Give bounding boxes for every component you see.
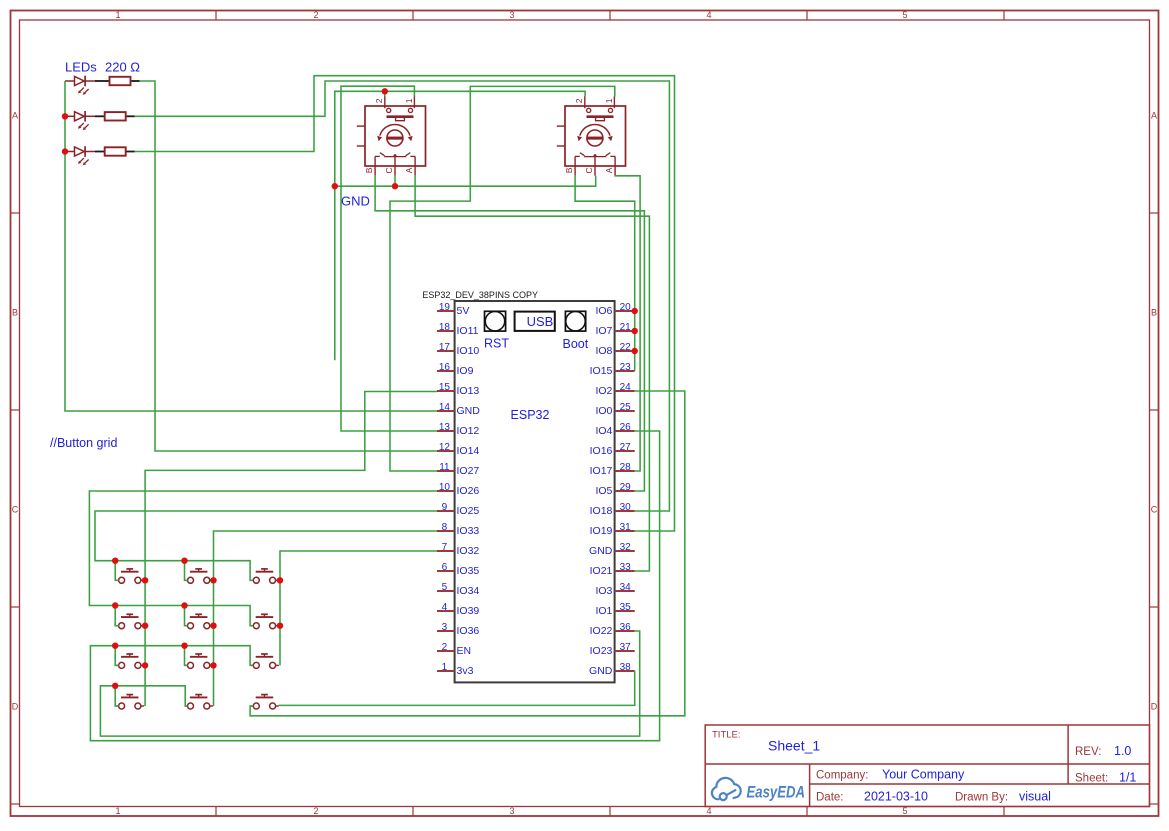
junction rowB S4 — [112, 602, 118, 608]
resistor R3 220R — [95, 151, 135, 153]
pin 7 IO32 — [437, 550, 455, 552]
wire net button col3 to pin7 IO32 — [280, 551, 437, 665]
junction encoder1 pin2 on GND net — [382, 88, 388, 94]
svg-text:IO11: IO11 — [457, 325, 479, 337]
pin 2 EN — [437, 650, 455, 652]
svg-text:IO1: IO1 — [595, 605, 612, 617]
svg-text:3v3: 3v3 — [457, 665, 474, 677]
pin 32 GND — [615, 550, 635, 552]
junction col2 S2 — [210, 577, 216, 583]
svg-text:ESP32_DEV_38PINS COPY: ESP32_DEV_38PINS COPY — [422, 290, 538, 300]
junction pin20 — [632, 308, 638, 314]
svg-text:18: 18 — [439, 322, 451, 333]
wire net button rowB to pin10 IO26 — [89, 491, 437, 626]
svg-text:GND: GND — [589, 665, 613, 677]
svg-text:IO15: IO15 — [590, 365, 613, 377]
svg-text:4: 4 — [442, 602, 448, 613]
Boot button — [565, 311, 585, 331]
USB connector — [515, 312, 555, 331]
svg-text:15: 15 — [439, 382, 451, 393]
svg-text:IO27: IO27 — [457, 465, 480, 477]
svg-text:31: 31 — [620, 522, 632, 533]
svg-text:23: 23 — [620, 362, 632, 373]
svg-text:IO25: IO25 — [457, 505, 480, 517]
svg-text:220 Ω: 220 Ω — [105, 60, 140, 75]
pin 12 IO14 — [437, 450, 455, 452]
svg-text:RST: RST — [484, 337, 509, 351]
pushbutton S2 — [185, 569, 214, 583]
wire rowC button lead S7 — [115, 646, 118, 666]
pushbutton S8 — [185, 654, 214, 668]
svg-text:38: 38 — [620, 662, 632, 673]
junction col2 S8 — [210, 662, 216, 668]
pin 30 IO18 — [615, 510, 635, 512]
svg-text:37: 37 — [620, 642, 632, 653]
junction col1 S1 — [142, 577, 148, 583]
svg-text:4: 4 — [706, 806, 711, 816]
wire net button col2 to pin8 IO33 — [214, 531, 438, 706]
wire rowB button lead S5 — [185, 606, 188, 626]
pin 21 IO7 — [615, 330, 635, 332]
svg-text:2: 2 — [313, 10, 318, 20]
svg-text:IO36: IO36 — [457, 625, 480, 637]
svg-text:A: A — [1151, 111, 1157, 121]
junction GND rail left — [332, 183, 338, 189]
svg-text:IO17: IO17 — [590, 465, 613, 477]
svg-text:29: 29 — [620, 482, 632, 493]
pushbutton S11 — [185, 695, 214, 709]
RST button — [485, 311, 506, 331]
wire net LED1/R1 to pin12 IO14 — [140, 81, 438, 451]
junction GND rail enc1-C — [392, 183, 398, 189]
title block — [705, 725, 1149, 807]
svg-text:32: 32 — [620, 542, 632, 553]
junction col2 S5 — [210, 623, 216, 629]
pushbutton S10 — [116, 695, 145, 709]
svg-text:IO13: IO13 — [457, 385, 480, 397]
svg-text:33: 33 — [620, 562, 632, 573]
wire net LED3/R3 to pin31 IO19 — [135, 76, 675, 531]
svg-text:35: 35 — [620, 602, 632, 613]
svg-text:Sheet_1: Sheet_1 — [768, 738, 820, 754]
svg-text:LEDs: LEDs — [65, 60, 97, 75]
svg-text:4: 4 — [706, 10, 711, 20]
svg-text:IO4: IO4 — [595, 425, 612, 437]
wire rowB button lead S4 — [115, 606, 118, 626]
junction rowC S7 — [112, 643, 118, 649]
svg-text:IO33: IO33 — [457, 525, 480, 537]
svg-text:EN: EN — [457, 645, 472, 657]
svg-text:27: 27 — [620, 442, 632, 453]
svg-text:17: 17 — [439, 342, 451, 353]
resistor R2 220R — [95, 115, 135, 117]
junction LED2 anode — [62, 113, 68, 119]
wire net button rowC to pin26 IO4 — [90, 431, 659, 741]
svg-text:1/1: 1/1 — [1119, 771, 1136, 785]
svg-text:IO32: IO32 — [457, 545, 480, 557]
rotary encoder 2 — [557, 96, 626, 175]
wire rowA button lead S2 — [185, 561, 188, 581]
pin 29 IO5 — [615, 490, 635, 492]
svg-text:GND: GND — [589, 545, 613, 557]
wire rowA button lead S1 — [115, 561, 118, 581]
svg-text:TITLE:: TITLE: — [712, 730, 741, 741]
junction pin22 — [632, 348, 638, 354]
svg-text:visual: visual — [1019, 790, 1051, 804]
pin 5 IO34 — [437, 590, 455, 592]
pin 1 3v3 — [437, 670, 455, 672]
svg-text:5: 5 — [442, 582, 448, 593]
pin 10 IO26 — [437, 490, 455, 492]
svg-text:1: 1 — [115, 806, 120, 816]
pin 28 IO17 — [615, 470, 635, 472]
svg-text:3: 3 — [509, 10, 514, 20]
svg-text:5: 5 — [902, 806, 907, 816]
svg-text:16: 16 — [439, 362, 451, 373]
pin 6 IO35 — [437, 570, 455, 572]
pushbutton S12 — [250, 695, 279, 709]
wire net LED-common to ESP32 pin14 GND — [65, 81, 437, 411]
svg-text:IO12: IO12 — [457, 425, 480, 437]
wire net encoder1 pinA to pin33 IO21 — [415, 176, 649, 571]
svg-text:Drawn By:: Drawn By: — [955, 792, 1008, 804]
pin 8 IO33 — [437, 530, 455, 532]
wire net LED2/R2 to pin30 IO18 — [135, 81, 670, 511]
pin 37 IO23 — [615, 650, 635, 652]
svg-text:IO39: IO39 — [457, 605, 480, 617]
pin 38 GND — [615, 670, 635, 672]
pin 31 IO19 — [615, 530, 635, 532]
LED LED1 — [65, 76, 95, 95]
pushbutton S5 — [185, 614, 214, 628]
svg-text:28: 28 — [620, 462, 632, 473]
svg-text:IO3: IO3 — [595, 585, 612, 597]
svg-text:5: 5 — [902, 10, 907, 20]
svg-text:Your Company: Your Company — [882, 768, 965, 782]
wire net button col1 to pin15 IO13 — [145, 392, 437, 707]
svg-text:IO0: IO0 — [595, 405, 612, 417]
pin 14 GND — [437, 410, 455, 412]
svg-text:3: 3 — [442, 622, 448, 633]
pin 23 IO15 — [615, 370, 635, 372]
svg-text:3: 3 — [509, 806, 514, 816]
svg-text:IO23: IO23 — [590, 645, 613, 657]
pin 26 IO4 — [615, 430, 635, 432]
svg-text:IO10: IO10 — [457, 345, 480, 357]
svg-text:IO26: IO26 — [457, 485, 480, 497]
wire net S12 right to pin38 GND — [279, 671, 635, 705]
svg-text:C: C — [12, 505, 19, 515]
pushbutton S3 — [250, 569, 279, 583]
pin 11 IO27 — [437, 470, 455, 472]
pin 15 IO13 — [437, 390, 455, 392]
pin 17 IO10 — [437, 350, 455, 352]
pushbutton S4 — [116, 614, 145, 628]
svg-text:GND: GND — [341, 194, 370, 209]
junction rowC S8 — [181, 643, 187, 649]
wire net GND stub encoder1 pinC — [394, 176, 396, 187]
wire net button rowD to pin36 IO22 — [100, 631, 639, 736]
LED LED3 — [65, 146, 95, 165]
pin 36 IO22 — [615, 630, 635, 632]
svg-text:IO9: IO9 — [457, 365, 474, 377]
svg-text:IO2: IO2 — [595, 385, 612, 397]
pin 35 IO1 — [615, 610, 635, 612]
svg-text:20: 20 — [620, 302, 632, 313]
svg-text:25: 25 — [620, 402, 632, 413]
junction col1 S4 — [142, 623, 148, 629]
pin 33 IO21 — [615, 570, 635, 572]
junction col3 S3 — [277, 577, 283, 583]
svg-text:IO19: IO19 — [590, 525, 613, 537]
svg-text:IO35: IO35 — [457, 565, 480, 577]
svg-text:6: 6 — [442, 562, 448, 573]
svg-text:IO34: IO34 — [457, 585, 480, 597]
LED LED2 — [65, 111, 95, 130]
pin 18 IO11 — [437, 330, 455, 332]
svg-text:C: C — [1151, 505, 1158, 515]
wire net encoder2 pin1 to pin11 IO27 — [390, 86, 615, 471]
resistor R1 220R — [95, 80, 140, 82]
junction col3 S6 — [277, 623, 283, 629]
svg-text://Button grid: //Button grid — [50, 436, 117, 450]
svg-text:19: 19 — [439, 302, 451, 313]
svg-text:Boot: Boot — [563, 337, 589, 351]
svg-text:1: 1 — [442, 662, 448, 673]
svg-text:B: B — [1151, 308, 1157, 318]
svg-text:2: 2 — [442, 642, 448, 653]
svg-text:30: 30 — [620, 502, 632, 513]
pushbutton S1 — [116, 569, 145, 583]
junction rowA S1 — [112, 558, 118, 564]
svg-text:14: 14 — [439, 402, 451, 413]
wire net encoder1 pinB to pin29 IO5 — [375, 176, 644, 491]
wire net encoder2 pinB to pins 20-23 — [575, 176, 635, 371]
svg-text:36: 36 — [620, 622, 632, 633]
svg-text:24: 24 — [620, 382, 632, 393]
svg-text:21: 21 — [620, 322, 632, 333]
svg-text:EasyEDA: EasyEDA — [747, 784, 806, 802]
op-amp/module U1 ESP32_DEV_38PINS COPY — [455, 301, 615, 682]
svg-text:8: 8 — [442, 522, 448, 533]
wire net encoder1 pin1 to pin13 IO12 — [341, 86, 437, 431]
pushbutton S9 — [250, 654, 279, 668]
junction LED3 anode — [62, 148, 68, 154]
pin 27 IO16 — [615, 450, 635, 452]
pin 20 IO6 — [615, 310, 635, 312]
wire net GND stub encoder1 pin2 — [384, 91, 386, 96]
svg-text:IO22: IO22 — [590, 625, 613, 637]
svg-text:5V: 5V — [457, 305, 470, 317]
svg-text:ESP32: ESP32 — [511, 408, 550, 422]
junction col1 S7 — [142, 662, 148, 668]
wire net GND horizontal rail — [335, 176, 596, 187]
junction pin21 — [632, 328, 638, 334]
svg-text:11: 11 — [439, 462, 450, 473]
svg-text:IO8: IO8 — [595, 345, 612, 357]
wire rowC button lead S8 — [185, 646, 188, 666]
wire net encoder2 pinA to pin28 IO17 — [615, 176, 640, 471]
svg-text:IO18: IO18 — [590, 505, 613, 517]
pin 19 5V — [437, 310, 455, 312]
pushbutton S6 — [250, 614, 279, 628]
junction rowB S5 — [181, 602, 187, 608]
pin 4 IO39 — [437, 610, 455, 612]
svg-text:IO5: IO5 — [595, 485, 612, 497]
pin 22 IO8 — [615, 350, 635, 352]
svg-text:IO14: IO14 — [457, 445, 480, 457]
pin 25 IO0 — [615, 410, 635, 412]
svg-text:Sheet:: Sheet: — [1075, 773, 1108, 785]
svg-text:Date:: Date: — [816, 792, 844, 804]
pushbutton S7 — [116, 654, 145, 668]
wire net button rowA to pin9 IO25 — [95, 511, 437, 580]
rotary encoder 1 — [357, 96, 426, 175]
svg-text:IO21: IO21 — [590, 565, 613, 577]
pin 13 IO12 — [437, 430, 455, 432]
EasyEDA logo — [712, 778, 741, 800]
svg-text:9: 9 — [442, 502, 448, 513]
svg-text:D: D — [12, 702, 19, 712]
wire net S12 left to pin24 IO2 — [250, 391, 685, 716]
pin 24 IO2 — [615, 390, 635, 392]
svg-text:2: 2 — [313, 806, 318, 816]
svg-text:USB: USB — [527, 314, 554, 329]
junction rowA S2 — [181, 558, 187, 564]
svg-text:B: B — [12, 308, 18, 318]
svg-text:IO7: IO7 — [595, 325, 612, 337]
svg-text:REV:: REV: — [1075, 746, 1101, 758]
svg-text:1.0: 1.0 — [1114, 744, 1131, 758]
svg-text:Company:: Company: — [816, 770, 868, 782]
junction rowD S10 — [112, 683, 118, 689]
svg-text:IO16: IO16 — [590, 445, 613, 457]
pin 34 IO3 — [615, 590, 635, 592]
svg-text:10: 10 — [439, 482, 451, 493]
svg-text:A: A — [12, 111, 18, 121]
wire net GND: encoder pushbuttons — [335, 91, 585, 360]
wire rowD button lead S10 — [115, 686, 118, 706]
svg-text:2021-03-10: 2021-03-10 — [864, 790, 928, 804]
svg-text:1: 1 — [115, 10, 120, 20]
pin 3 IO36 — [437, 630, 455, 632]
svg-text:12: 12 — [439, 442, 451, 453]
svg-text:7: 7 — [442, 542, 448, 553]
svg-text:D: D — [1151, 702, 1158, 712]
pin 9 IO25 — [437, 510, 455, 512]
svg-text:13: 13 — [439, 422, 451, 433]
svg-text:22: 22 — [620, 342, 632, 353]
svg-text:34: 34 — [620, 582, 632, 593]
svg-text:26: 26 — [620, 422, 632, 433]
pin 16 IO9 — [437, 370, 455, 372]
svg-text:GND: GND — [457, 405, 481, 417]
svg-text:IO6: IO6 — [595, 305, 612, 317]
